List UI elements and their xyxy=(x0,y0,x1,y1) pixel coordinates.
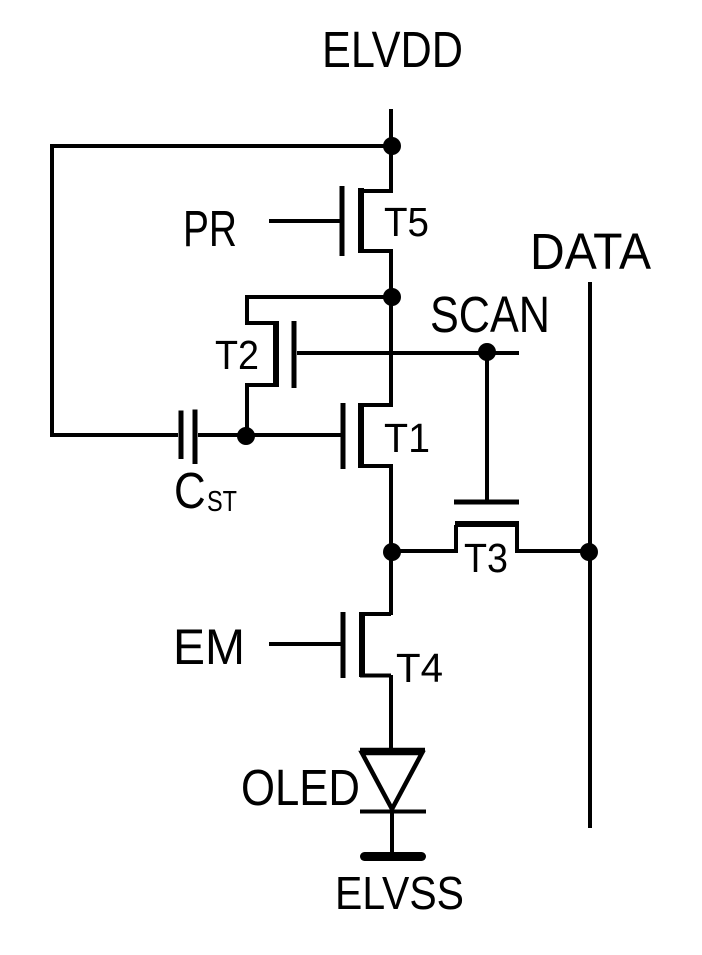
svg-text:ELVDD: ELVDD xyxy=(322,21,463,78)
svg-text:ST: ST xyxy=(207,486,237,518)
svg-text:OLED: OLED xyxy=(241,759,360,816)
svg-text:T4: T4 xyxy=(396,645,443,691)
svg-text:T1: T1 xyxy=(384,415,430,461)
svg-text:DATA: DATA xyxy=(530,223,651,280)
svg-text:ELVSS: ELVSS xyxy=(335,867,464,919)
svg-text:T3: T3 xyxy=(464,535,508,581)
svg-text:T2: T2 xyxy=(215,332,259,378)
svg-text:C: C xyxy=(174,463,206,520)
svg-text:SCAN: SCAN xyxy=(430,286,550,343)
svg-text:EM: EM xyxy=(173,619,245,675)
svg-text:PR: PR xyxy=(183,200,237,257)
svg-text:T5: T5 xyxy=(384,199,429,245)
